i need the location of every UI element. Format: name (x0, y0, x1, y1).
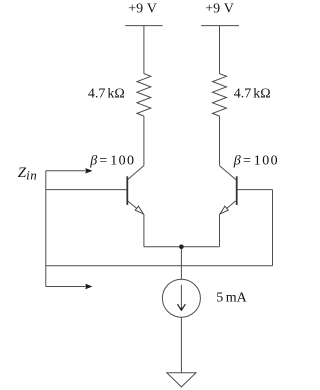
power rail bar left (+9V) (125, 25, 162, 27)
wire: R1 bottom to Q1 collector (143, 116, 145, 166)
wire: left rail to resistor R1 top (143, 26, 145, 74)
wire: Q1 emitter down (143, 214, 145, 246)
transistor Q2 emitter lead (220, 201, 236, 215)
Zin top arrowhead (86, 169, 92, 174)
wire: R2 bottom to Q2 collector (219, 116, 221, 166)
svg-text:Zin: Zin (18, 165, 37, 183)
svg-text:β=100: β=100 (233, 154, 279, 169)
wire: right bracket vertical (272, 190, 274, 266)
wire: base lead Q1 (46, 189, 128, 191)
wire: right rail to resistor R2 top (219, 26, 221, 74)
wire: emitter node to current source (180, 247, 182, 279)
transistor Q1 emitter lead (128, 201, 144, 215)
svg-text:5mA: 5mA (216, 290, 247, 305)
current source I1 circle (162, 279, 200, 317)
junction dot emitter node (179, 245, 184, 250)
wire: Q2 emitter down (219, 214, 221, 246)
wire: emitter bus (144, 246, 220, 248)
svg-text:β=100: β=100 (89, 154, 135, 169)
Q1 emitter open arrowhead (135, 206, 143, 214)
ground symbol (167, 373, 196, 387)
resistor R2 4.7k zigzag (213, 74, 227, 117)
transistor Q1 collector lead (128, 166, 144, 180)
Zin bottom arrow shaft (46, 286, 87, 288)
Zin top arrow shaft (46, 170, 87, 172)
svg-text:+9V: +9V (205, 2, 234, 17)
transistor Q2 collector lead (220, 166, 236, 180)
current source arrow shaft (180, 285, 182, 310)
current source arrowhead (178, 305, 185, 311)
resistor R1 4.7k zigzag (137, 74, 151, 117)
svg-text:4.7kΩ: 4.7kΩ (88, 87, 125, 102)
Zin port bracket vertical (45, 171, 47, 287)
wire: base lead Q2 (237, 189, 273, 191)
wire: current source to ground (180, 317, 182, 373)
transistor Q1 base bar (126, 176, 128, 205)
wire: lower return line to Q2 base (46, 265, 273, 267)
transistor Q2 base bar (236, 176, 238, 205)
power rail bar right (+9V) (201, 25, 239, 27)
svg-text:+9V: +9V (128, 2, 157, 17)
Zin bottom arrowhead (86, 284, 92, 289)
svg-text:4.7kΩ: 4.7kΩ (234, 87, 271, 102)
Q2 emitter open arrowhead (220, 206, 228, 214)
